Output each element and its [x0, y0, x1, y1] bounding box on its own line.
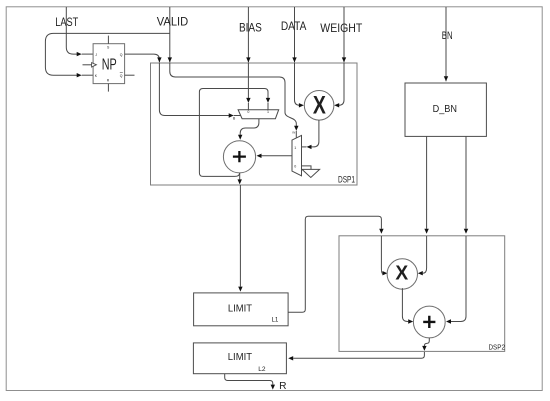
svg-text:DSP1: DSP1 — [338, 175, 355, 185]
svg-text:LIMIT: LIMIT — [228, 352, 252, 363]
svg-text:NP: NP — [102, 57, 117, 74]
block LIMIT L2 — [193, 343, 286, 374]
wire NP Qbar stub — [125, 74, 135, 76]
svg-text:Q: Q — [120, 53, 123, 57]
wire DATA inside DSP1 to multiplier X1 — [295, 63, 300, 105]
wire NP Q inside DSP1 to mux M1 select — [159, 63, 229, 116]
svg-text:DSP2: DSP2 — [489, 342, 506, 351]
block D_BN — [405, 83, 486, 136]
svg-text:D_BN: D_BN — [433, 103, 457, 115]
wire NP Q output to DSP1 — [125, 54, 160, 62]
wire inside DSP2 to multiplier X2 left — [381, 236, 382, 273]
pin R tick of NP — [107, 84, 109, 92]
wire DSP2 output to LIMIT L2 — [293, 352, 424, 358]
svg-text:IN: IN — [292, 131, 295, 135]
mux M1 — [238, 110, 279, 119]
svg-text:L1: L1 — [271, 317, 278, 324]
wire VALID to NP pin K — [45, 33, 169, 75]
wire WEIGHT input — [343, 7, 345, 62]
wire D_BN output 2 to DSP2 — [465, 136, 467, 228]
wire accumulator feedback from adder A1 output to mux M1 pin 1 — [199, 89, 268, 177]
wire multiplier X1 output to mux M2 pin 1 — [312, 120, 319, 147]
wire NP clock stub — [83, 64, 92, 66]
block DSP2 boundary — [339, 236, 505, 352]
wire LIMIT L1 output to DSP2 — [288, 216, 381, 312]
svg-text:X: X — [395, 262, 408, 284]
wire BN input — [445, 7, 447, 81]
wire LAST input — [66, 7, 93, 54]
svg-text:LAST: LAST — [55, 15, 79, 29]
svg-text:0: 0 — [294, 164, 296, 168]
svg-text:R: R — [279, 381, 286, 392]
wire D_BN output 1 to DSP2 — [426, 136, 428, 228]
wire BIAS input — [247, 7, 249, 62]
wire LIMIT L2 output R — [225, 374, 273, 385]
ground — [302, 169, 320, 177]
wire inside DSP2 to multiplier X2 right — [423, 236, 427, 273]
svg-text:1: 1 — [294, 146, 296, 150]
pin S tick of NP — [107, 36, 109, 44]
svg-text:J: J — [95, 53, 97, 57]
block DSP1 boundary — [151, 63, 358, 185]
wire DATA input — [294, 7, 296, 62]
mux M2 — [292, 135, 302, 175]
wire WEIGHT inside DSP1 to multiplier X1 — [339, 63, 344, 105]
svg-text:BIAS: BIAS — [239, 20, 262, 34]
wire VALID input — [169, 7, 171, 62]
svg-text:DATA: DATA — [281, 19, 307, 33]
wire mux M2 output to adder A1 — [262, 155, 293, 157]
wire adder A1 output to DSP1 edge — [239, 173, 241, 180]
svg-text:X: X — [313, 92, 326, 120]
adder A2 — [413, 306, 445, 338]
svg-text:WEIGHT: WEIGHT — [320, 21, 363, 35]
wire BIAS inside DSP1 to mux M1 pin 0 — [247, 63, 249, 98]
pin clock chevron of NP — [92, 63, 97, 67]
svg-text:LIMIT: LIMIT — [228, 303, 252, 314]
adder A1 — [223, 141, 255, 173]
svg-text:1: 1 — [267, 110, 269, 114]
junction arrow into NP pin J — [77, 52, 82, 56]
wire inside DSP2 to adder A2 right — [451, 236, 466, 322]
wire mux M2 pin 0 to ground — [302, 166, 312, 169]
svg-text:Q: Q — [120, 74, 123, 78]
svg-text:VALID: VALID — [157, 17, 188, 29]
svg-text:L2: L2 — [258, 366, 266, 373]
multiplier X2 — [387, 259, 417, 289]
wire mux M1 output to adder A1 — [240, 119, 259, 135]
multiplier X1 — [304, 91, 334, 121]
svg-text:BN: BN — [442, 30, 453, 42]
block LIMIT L1 — [194, 293, 289, 326]
flip-flop NP — [83, 36, 125, 92]
wire adder A2 output to DSP2 edge — [424, 338, 429, 346]
junction arrow into NP pin K — [77, 73, 82, 77]
svg-text:0: 0 — [247, 110, 249, 114]
wire multiplier X2 output to adder A2 — [402, 288, 408, 321]
wire VALID inside DSP1 to mux M2 select — [170, 63, 296, 126]
wire DSP1 output to LIMIT L1 — [239, 185, 241, 287]
